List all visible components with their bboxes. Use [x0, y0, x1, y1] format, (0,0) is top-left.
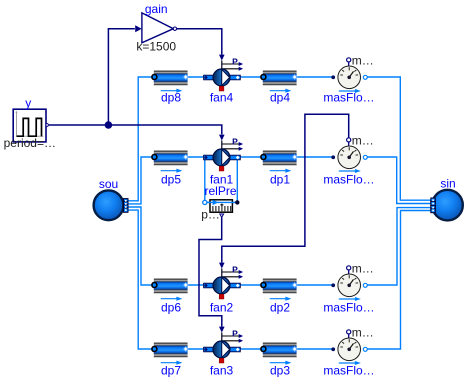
svg-text:dp7: dp7: [161, 364, 181, 378]
wire sou port2 to dp5: [128, 157, 152, 204]
wire fan2 to dp2: [239, 284, 263, 286]
sensor relPre: [203, 200, 240, 218]
node junction: [105, 121, 113, 129]
svg-text:masFlo…: masFlo…: [323, 91, 374, 105]
svg-text:m…: m…: [352, 262, 374, 276]
wire fan1 port_b to relPre port_b: [236, 159, 238, 203]
wire sou port1 to dp8: [128, 77, 152, 201]
pipe dp5: [152, 151, 188, 172]
wire dp4 to masFloRat: [297, 76, 333, 78]
svg-text:masFlo…: masFlo…: [323, 173, 374, 187]
svg-text:gain: gain: [145, 2, 168, 16]
wire sou port3 to dp6: [128, 207, 152, 285]
wire gain output to fan4 input: [177, 29, 222, 55]
pipe dp6: [152, 279, 188, 300]
wire masFloRat to sin port1: [367, 77, 431, 200]
svg-text:fan4: fan4: [210, 91, 234, 105]
pipe dp4: [261, 71, 297, 92]
sensor masFloRat2: [331, 266, 367, 300]
svg-text:masFlo…: masFlo…: [323, 301, 374, 315]
wire dp5 to fan1: [188, 156, 205, 158]
wire pulse y to fan1 input: [50, 125, 222, 134]
wire dp3 to masFloRat3: [297, 348, 333, 350]
wire junction to gain input: [108, 29, 134, 125]
svg-text:y: y: [25, 96, 31, 110]
svg-text:fan1: fan1: [210, 173, 234, 187]
svg-text:dp6: dp6: [161, 301, 181, 315]
svg-text:fan3: fan3: [210, 364, 234, 378]
wire masFloRat3 to sin port4: [367, 211, 431, 350]
wire dp1 to masFloRat1: [297, 156, 333, 158]
wire masFloRat2 to sin port3: [367, 208, 431, 285]
svg-text:dp2: dp2: [270, 301, 290, 315]
sink sin: [431, 190, 463, 221]
fan fan1: [204, 135, 244, 171]
wire sou port4 to dp7: [128, 210, 152, 349]
pipe dp3: [261, 343, 297, 364]
svg-text:sou: sou: [99, 177, 118, 191]
wire relPre p_rel to fan3 input: [199, 217, 222, 327]
svg-text:P: P: [232, 264, 238, 274]
wire dp2 to masFloRat2: [297, 284, 333, 286]
sensor masFloRat1: [331, 138, 367, 172]
wire fan3 to dp3: [239, 348, 263, 350]
svg-text:period=…: period=…: [4, 136, 56, 150]
fan fan4: [204, 55, 244, 91]
svg-text:dp8: dp8: [161, 91, 181, 105]
fan fan2: [204, 263, 244, 299]
pipe dp7: [152, 343, 188, 364]
wire fan4 to dp4: [239, 76, 263, 78]
sensor masFloRat3: [331, 330, 367, 364]
svg-text:fan2: fan2: [210, 301, 234, 315]
svg-text:m…: m…: [352, 326, 374, 340]
svg-text:masFlo…: masFlo…: [323, 364, 374, 378]
svg-text:k=1500: k=1500: [136, 40, 176, 54]
pulse source y: [13, 109, 49, 142]
sensor masFloRat: [331, 58, 367, 92]
fan fan3: [204, 327, 244, 363]
svg-text:dp3: dp3: [270, 364, 290, 378]
wire fan1 to dp1: [239, 156, 263, 158]
pipe dp2: [261, 279, 297, 300]
wire dp7 to fan3: [188, 348, 205, 350]
gain block: [135, 13, 176, 43]
svg-text:dp4: dp4: [270, 91, 290, 105]
svg-text:dp1: dp1: [270, 173, 290, 187]
svg-text:dp5: dp5: [161, 173, 181, 187]
wire through relPre: [207, 201, 236, 203]
svg-text:P: P: [232, 56, 238, 66]
wire fan1 port_a to relPre port_a: [204, 159, 206, 203]
svg-text:m…: m…: [352, 54, 374, 68]
source sou: [94, 190, 128, 220]
wire dp8 to fan4: [188, 76, 205, 78]
svg-text:sin: sin: [440, 177, 455, 191]
svg-text:P: P: [232, 328, 238, 338]
wire masFloRat1 m_flow to fan2 input: [222, 114, 349, 262]
svg-text:P: P: [232, 136, 238, 146]
wire masFloRat1 to sin port2: [367, 157, 431, 204]
pipe dp1: [261, 151, 297, 172]
svg-text:p…: p…: [201, 207, 220, 221]
wire dp6 to fan2: [188, 284, 205, 286]
pipe dp8: [152, 71, 188, 92]
svg-text:m…: m…: [352, 134, 374, 148]
